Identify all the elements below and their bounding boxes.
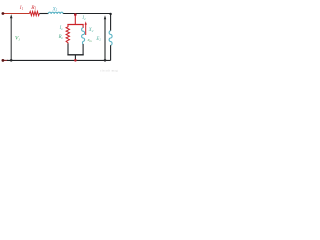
svg-text:Re: Re: [58, 35, 64, 40]
svg-text:xm: xm: [87, 37, 93, 43]
svg-text:E2: E2: [95, 37, 101, 42]
svg-text:X2: X2: [88, 28, 94, 33]
svg-text:I2: I2: [81, 16, 86, 21]
svg-text:circuit mag: circuit mag: [100, 69, 118, 73]
svg-text:Ie: Ie: [59, 26, 64, 31]
